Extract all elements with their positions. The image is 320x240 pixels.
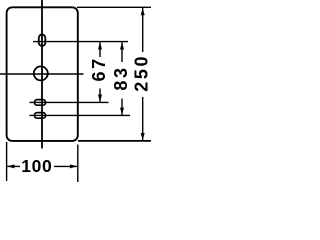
bottom extension line for 250 xyxy=(78,140,151,142)
dimension line 67 xyxy=(99,42,101,57)
slot 2 (lower horizontal oval) xyxy=(34,113,45,119)
dimension line 100 xyxy=(7,165,20,167)
dimension line 250 xyxy=(142,7,144,52)
right extension line for 100 xyxy=(77,145,79,183)
plate outline xyxy=(7,7,78,141)
horizontal centerline through circle xyxy=(0,73,84,75)
svg-text:83: 83 xyxy=(111,65,131,90)
top mounting slot xyxy=(39,35,46,47)
vertical centerline xyxy=(41,0,43,149)
left extension line for 100 xyxy=(6,142,8,181)
slot extension line xyxy=(33,41,128,43)
slot 1 (upper horizontal oval) xyxy=(34,100,45,106)
slot 1 extension line xyxy=(30,101,109,103)
svg-text:250: 250 xyxy=(132,54,152,92)
top extension line for 250 xyxy=(77,6,151,8)
svg-text:67: 67 xyxy=(89,56,109,81)
circle hole xyxy=(34,66,48,80)
svg-text:100: 100 xyxy=(21,156,52,176)
dimension line 83 xyxy=(121,42,123,62)
slot 2 extension line xyxy=(30,114,131,116)
